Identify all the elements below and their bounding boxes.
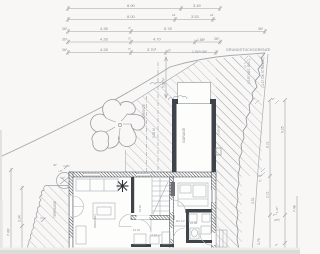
svg-text:36⁵: 36⁵	[62, 27, 68, 31]
scan artifacts: left edge strip	[0, 130, 2, 254]
dimension row 1	[66, 6, 222, 11]
window top wall left	[84, 173, 100, 177]
survey tree circle	[57, 173, 73, 189]
terrace hatch with wavy edge	[27, 185, 69, 254]
white: garage interior	[172, 99, 216, 175]
terrace step marks	[63, 165, 70, 169]
svg-text:24: 24	[172, 13, 176, 17]
left dimension line 2	[20, 186, 24, 254]
street edge line	[252, 54, 268, 254]
house top wall	[69, 172, 216, 177]
window left wall lower	[69, 238, 73, 248]
svg-text:2⁴: 2⁴	[168, 49, 172, 53]
bath fixtures	[174, 214, 211, 239]
bath door arc	[174, 228, 185, 239]
bedroom door arc	[174, 200, 186, 212]
entrance steps outside	[216, 230, 227, 247]
window right wall	[212, 190, 217, 202]
svg-text:7.48: 7.48	[293, 205, 297, 212]
svg-text:8.01: 8.01	[266, 141, 270, 148]
svg-text:12.52 m²: 12.52 m²	[150, 233, 161, 237]
svg-text:36⁵: 36⁵	[258, 174, 262, 178]
scan artifacts: bottom band	[0, 250, 300, 254]
dimension row 4	[66, 40, 222, 45]
dimension row 3	[66, 29, 267, 34]
svg-text:1.94⁵+36⁵: 1.94⁵+36⁵	[192, 50, 208, 54]
white wedge above boundary curve	[0, 0, 300, 172]
garage door line	[177, 103, 211, 105]
entrance door opening right wall	[212, 233, 217, 245]
lamp star	[117, 180, 129, 192]
garage right wall pillar	[216, 148, 221, 155]
svg-text:24: 24	[210, 13, 214, 17]
bedroom bed	[178, 183, 208, 206]
svg-text:36⁵: 36⁵	[62, 48, 68, 52]
living room door arc	[119, 214, 131, 227]
svg-text:36⁵: 36⁵	[214, 37, 220, 41]
door arcs french doors	[73, 196, 84, 217]
svg-text:WOHNEN: WOHNEN	[93, 214, 97, 228]
svg-text:3.49: 3.49	[193, 3, 202, 8]
white: house interior	[69, 172, 216, 254]
stairs	[152, 178, 169, 215]
house right wall	[212, 172, 217, 254]
svg-text:3.51: 3.51	[251, 197, 255, 204]
radiator hall	[171, 182, 176, 196]
svg-text:GRUNDSTÜCKSGRENZE: GRUNDSTÜCKSGRENZE	[226, 48, 271, 52]
svg-text:40⁷: 40⁷	[53, 163, 57, 167]
svg-text:+0.38: +0.38	[190, 221, 198, 225]
svg-text:GARAGE: GARAGE	[182, 127, 186, 143]
svg-text:3.70⁵: 3.70⁵	[147, 47, 157, 52]
svg-text:1.26⁵: 1.26⁵	[275, 206, 279, 213]
svg-text:36⁵: 36⁵	[62, 38, 68, 42]
interior wall living/hall	[131, 177, 134, 213]
svg-text:5.78: 5.78	[164, 26, 173, 31]
svg-text:2.01: 2.01	[266, 191, 270, 198]
svg-text:7.49⁵: 7.49⁵	[7, 227, 11, 236]
garage walls	[172, 99, 216, 175]
right dimension line A	[268, 98, 272, 254]
svg-text:3.53: 3.53	[191, 14, 200, 19]
interior wall hall horizontal	[131, 216, 174, 220]
Baugrenze dash-dot lines	[157, 62, 159, 172]
svg-text:(-0.87 NAT. GEL.): (-0.87 NAT. GEL.)	[247, 59, 251, 84]
svg-text:36⁵: 36⁵	[258, 27, 264, 31]
site boundary curve	[0, 53, 265, 157]
dimension row 2	[66, 17, 216, 22]
ticks near jagged top	[244, 56, 248, 64]
svg-text:+0.32: +0.32	[213, 216, 217, 224]
svg-text:14.32: 14.32	[133, 228, 140, 232]
left dimension line 1	[9, 168, 13, 254]
kitchen fixtures bottom middle	[134, 232, 170, 244]
french door opening left wall	[69, 196, 73, 217]
svg-text:1.88⁵: 1.88⁵	[197, 38, 206, 42]
path line below tree	[125, 150, 127, 172]
interior wall bedroom bottom	[185, 209, 212, 213]
big tree scribble	[91, 100, 145, 152]
white: driveway rect interior	[178, 83, 211, 105]
svg-text:8.90: 8.90	[127, 3, 136, 8]
svg-text:+0⁴: +0⁴	[58, 169, 63, 173]
svg-text:(36⁵): (36⁵)	[274, 218, 280, 222]
interior wall bath vertical	[186, 213, 189, 241]
svg-text:TERRASSE: TERRASSE	[53, 201, 57, 218]
svg-text:9.25: 9.25	[281, 126, 285, 133]
svg-text:3.76: 3.76	[257, 238, 261, 245]
svg-text:(-1.17 OK STRASSE): (-1.17 OK STRASSE)	[261, 57, 265, 88]
house left wall	[69, 172, 73, 254]
living room furniture	[76, 179, 118, 244]
dimension row 5	[66, 50, 218, 55]
interior wall bottom segments	[131, 244, 151, 247]
svg-text:DU 3.2: DU 3.2	[176, 219, 185, 223]
svg-text:18.92: 18.92	[138, 205, 142, 212]
svg-text:5.00 M: 5.00 M	[217, 125, 221, 135]
svg-text:4.28: 4.28	[100, 37, 109, 42]
hatch edge boundary line	[126, 61, 198, 130]
hall lower door arc	[138, 220, 151, 233]
setback dimension with arrows	[165, 57, 168, 98]
svg-text:8.00: 8.00	[127, 14, 136, 19]
entrance door arc	[200, 234, 212, 246]
window in top wall	[137, 173, 150, 177]
svg-text:3.34: 3.34	[18, 215, 22, 222]
hatched gravel area	[125, 54, 265, 251]
svg-text:4.28: 4.28	[100, 47, 109, 52]
svg-text:4.38: 4.38	[100, 26, 109, 31]
svg-text:5.00 M: 5.00 M	[152, 128, 156, 138]
svg-text:4.70: 4.70	[153, 37, 162, 42]
interior wall hall/bedroom vertical	[170, 177, 174, 254]
jagged property boundary right	[237, 53, 266, 254]
right dimension line B	[283, 98, 287, 254]
shrub scallops left of driveway	[168, 96, 187, 101]
